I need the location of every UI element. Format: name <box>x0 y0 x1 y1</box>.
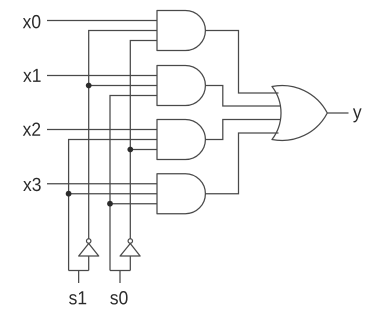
wire s1 inverter input drop <box>88 256 90 271</box>
wire s1n branch to U2 <box>89 85 157 87</box>
wire s0 inverter input drop <box>129 256 131 271</box>
wire s1 input lead <box>78 271 80 284</box>
junction dot s1/U4 <box>66 191 72 197</box>
wire s0 bottom connector <box>110 270 130 272</box>
label s1 <box>69 291 86 304</box>
wire s1 bottom connector <box>69 270 89 272</box>
junction dot s0/U4 <box>107 201 113 207</box>
junction dot s1n/U2 <box>86 83 92 89</box>
wire s0 input lead <box>119 271 121 284</box>
AND gate U2 <box>157 66 205 106</box>
wire s1n net (inverter V1 output, to U1 and U2) <box>89 31 157 239</box>
wire x0 input <box>47 20 157 22</box>
label x3 <box>23 178 40 191</box>
label x0 <box>23 15 41 28</box>
inverter V2 (s0) <box>120 244 140 257</box>
wire U2 output to OR input 2 <box>205 86 281 107</box>
wire s0n branch to U3 <box>130 149 157 151</box>
AND gate U4 <box>157 174 205 214</box>
label x2 <box>23 123 40 136</box>
wire U1 output to OR input 1 <box>205 31 278 94</box>
wire y output <box>327 112 348 114</box>
junction dot s0n/U3 <box>127 147 133 153</box>
wire x1 input <box>47 75 157 77</box>
AND gate U3 <box>157 120 205 160</box>
wire s0 branch to U4 <box>110 203 157 205</box>
OR gate U5 <box>272 86 327 141</box>
AND gate U1 <box>157 11 205 51</box>
wire U3 output to OR input 3 <box>205 120 281 140</box>
wire x3 input <box>47 183 157 185</box>
inverter V1 bubble <box>87 239 91 243</box>
wire x2 input <box>47 129 157 131</box>
inverter V1 (s1) <box>79 244 99 257</box>
inverter V2 bubble <box>128 239 132 243</box>
wire s1 branch to U4 <box>69 193 157 195</box>
label y <box>353 108 362 122</box>
label s0 <box>110 291 127 304</box>
wire s0n net (inverter V2 output, to U1 and U3) <box>130 41 157 239</box>
label x1 <box>23 69 40 82</box>
wire s1 net (non-inverted, to U3 and U4) <box>69 140 157 271</box>
wire U4 output to OR input 4 <box>205 133 278 194</box>
wire s0 net (non-inverted, to U2 and U4) <box>110 96 157 271</box>
